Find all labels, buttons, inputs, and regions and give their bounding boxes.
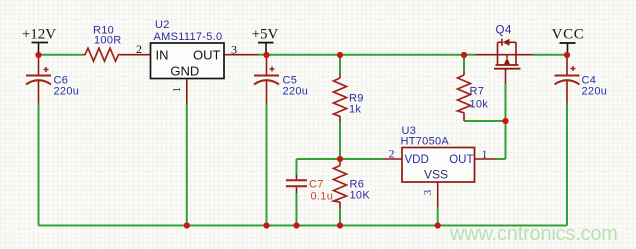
wire: C5 column below (266, 103, 268, 226)
wire: R9 top stub (339, 55, 341, 73)
node: rail junction C5 (263, 222, 269, 228)
svg-text:+12V: +12V (22, 27, 56, 43)
svg-text:IN: IN (156, 47, 169, 62)
node: +5V junction (263, 52, 269, 58)
svg-text:100R: 100R (94, 35, 122, 47)
regulator U3 (402, 148, 475, 183)
svg-text:OUT: OUT (449, 154, 473, 166)
svg-text:HT7050A: HT7050A (401, 136, 450, 148)
wire: left column below C6 (38, 103, 40, 226)
node: mid junction at R9/R6 (337, 156, 343, 162)
svg-text:+5V: +5V (252, 27, 279, 43)
wire: R9 node to R7 node (340, 54, 464, 56)
wire: R7 bottom to gate node (464, 120, 506, 122)
wire: top rail +12V to R10 (39, 54, 83, 56)
power port +5V (252, 27, 279, 55)
svg-text:1k: 1k (349, 104, 361, 116)
wire: R10 to U2 pin2 (120, 54, 151, 56)
svg-text:220u: 220u (283, 86, 309, 98)
svg-text:R7: R7 (470, 86, 485, 98)
wire: VCC column down to C4 (566, 55, 568, 75)
svg-text:VSS: VSS (424, 168, 448, 182)
capacitor C5 (254, 55, 279, 103)
wire: up from U3 OUT to gate node (505, 121, 507, 159)
wire: R6 bottom to rail (339, 202, 341, 208)
wire: +5V to R9 node (267, 54, 341, 56)
node: rail junction U3 VSS (435, 222, 441, 228)
svg-text:2: 2 (136, 42, 142, 56)
node: rail junction C7 (293, 222, 299, 228)
node: R9 top junction (337, 52, 343, 58)
svg-text:3: 3 (423, 190, 434, 195)
svg-text:3: 3 (231, 43, 237, 57)
resistor R7 (458, 75, 471, 113)
wire: R7 node to Q4 drain (464, 54, 475, 56)
resistor R9 (334, 78, 347, 116)
svg-text:U2: U2 (155, 19, 170, 31)
svg-text:VCC: VCC (552, 27, 585, 43)
node: gate junction (502, 118, 508, 124)
svg-text:0.1u: 0.1u (311, 190, 334, 202)
svg-text:OUT: OUT (193, 47, 221, 62)
capacitor C7 (286, 175, 307, 193)
power port +12V (22, 27, 56, 55)
svg-text:1: 1 (482, 147, 488, 161)
node: +12V junction (35, 52, 41, 58)
svg-text:2: 2 (389, 147, 395, 161)
transistor Q4 (P-MOSFET) (494, 39, 521, 69)
wire: C7 bottom to rail (296, 193, 298, 226)
svg-text:220u: 220u (582, 86, 608, 98)
wire: Q4 source to VCC (516, 54, 533, 56)
wire: U2 pin3 to +5V (224, 54, 258, 56)
resistor R6 (334, 166, 347, 203)
svg-text:1: 1 (172, 87, 183, 92)
wire: mid node left to C7 (297, 158, 341, 160)
node: VCC junction (564, 52, 570, 58)
svg-text:C7: C7 (309, 179, 324, 191)
wire: R7 top stub (463, 55, 465, 71)
svg-text:10K: 10K (350, 190, 371, 202)
svg-text:10k: 10k (470, 99, 489, 111)
regulator U2 (151, 43, 225, 79)
resistor R10 (82, 48, 120, 61)
power port VCC (552, 27, 585, 55)
wire: R9 bottom to mid node (339, 116, 341, 122)
wire: mid node to U3 VDD pin2 (340, 158, 383, 160)
svg-text:VDD: VDD (405, 154, 429, 166)
node: R7 top junction (461, 52, 467, 58)
svg-text:220u: 220u (54, 86, 80, 98)
svg-text:GND: GND (170, 64, 199, 79)
capacitor C6 (26, 55, 51, 103)
wire: bottom ground rail (39, 225, 568, 227)
wire: R6 top stub (339, 159, 341, 163)
svg-text:Q4: Q4 (496, 25, 512, 37)
wire: U3 OUT pin1 right (475, 158, 496, 160)
node: rail junction R6 (337, 222, 343, 228)
capacitor C4 (555, 66, 580, 84)
wire: U2 GND down to rail (186, 104, 188, 226)
wire: C7 top (296, 159, 298, 175)
pin 1 of U2 (172, 79, 187, 105)
svg-text:AMS1117-5.0: AMS1117-5.0 (154, 31, 223, 43)
node: rail junction U2 GND (184, 222, 190, 228)
wire: U3 VSS pin3 down (437, 182, 439, 207)
wire: Q4 gate lead down (505, 69, 507, 85)
